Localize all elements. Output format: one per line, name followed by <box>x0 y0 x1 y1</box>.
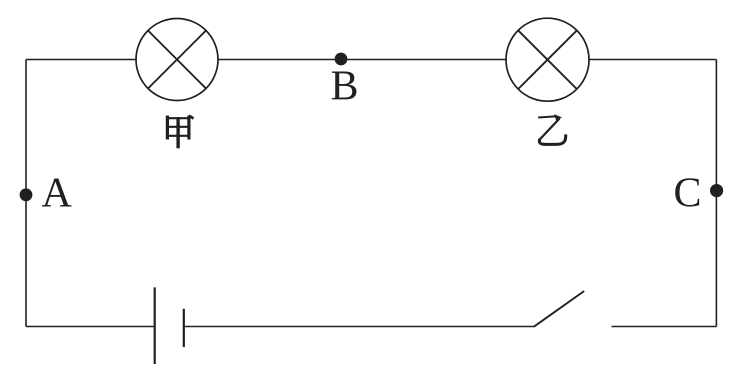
label 甲 (lamp L1 name, drawn glyph) <box>166 116 194 149</box>
lamp 甲 (L1) <box>136 19 218 101</box>
wire left vertical <box>25 60 27 327</box>
wire top-right segment <box>589 59 716 61</box>
lamp 乙 (L2) <box>506 18 589 101</box>
node C (junction dot) <box>710 184 723 197</box>
svg-text:B: B <box>331 64 359 110</box>
svg-text:A: A <box>42 171 73 217</box>
node B (junction dot) <box>335 53 348 66</box>
label 乙 (lamp L2 name, drawn glyph) <box>538 114 566 144</box>
switch S (open blade) <box>534 291 585 327</box>
wire bottom-left segment <box>26 326 155 328</box>
wire top-left segment <box>26 59 136 61</box>
battery cell plates <box>155 287 184 364</box>
wire top-middle segment <box>218 59 506 61</box>
svg-text:C: C <box>674 171 702 217</box>
wire battery to switch <box>184 326 534 328</box>
wire switch to bottom-right corner <box>612 326 717 328</box>
wire right vertical <box>715 60 717 327</box>
node A (junction dot) <box>20 188 33 201</box>
